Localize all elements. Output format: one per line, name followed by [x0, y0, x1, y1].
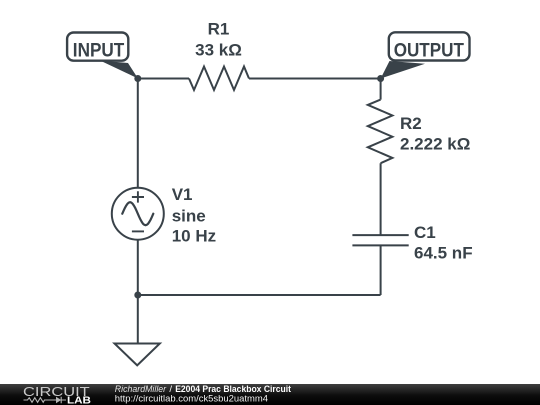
wire bottom rail [138, 294, 381, 296]
svg-text:sine: sine [172, 206, 206, 225]
node INPUT callout [67, 33, 138, 79]
wire top rail left (INPUT node to R1) [138, 78, 189, 80]
footer title line [115, 384, 292, 395]
footer logo glyph (resistor + diode) [24, 397, 67, 403]
footer bar [0, 384, 540, 405]
svg-text:V1: V1 [172, 185, 193, 204]
node INPUT junction dot [134, 75, 141, 82]
label C1 value [414, 223, 473, 263]
svg-text:10 Hz: 10 Hz [172, 227, 216, 246]
ground [115, 344, 160, 366]
label R1 value [195, 19, 242, 59]
wire top rail right (R1 to OUTPUT node) [249, 78, 381, 80]
resistor R2 [368, 100, 393, 164]
wire ground stem [137, 295, 139, 343]
wire left rail (V1 to bottom node) [137, 240, 139, 295]
voltage source V1 [112, 188, 164, 240]
footer url line [115, 393, 268, 404]
node bottom junction dot [134, 292, 141, 299]
footer logo LAB [67, 395, 91, 405]
svg-text:OUTPUT: OUTPUT [394, 40, 465, 61]
capacitor C1 [352, 235, 408, 245]
svg-text:64.5 nF: 64.5 nF [414, 244, 473, 263]
svg-text:33 kΩ: 33 kΩ [195, 40, 242, 59]
node OUTPUT junction dot [377, 75, 384, 82]
svg-text:LAB: LAB [67, 395, 91, 405]
footer logo CIRCUIT [23, 384, 90, 399]
svg-text:http://circuitlab.com/ck5sbu2u: http://circuitlab.com/ck5sbu2uatmm4 [115, 393, 268, 404]
resistor R1 [189, 67, 249, 91]
svg-text:INPUT: INPUT [73, 41, 125, 62]
label V1 value [172, 185, 216, 245]
svg-text:R2: R2 [400, 114, 422, 133]
svg-text:C1: C1 [414, 223, 436, 242]
wire right rail (OUTPUT node to R2) [380, 79, 382, 100]
node OUTPUT callout [381, 32, 470, 78]
svg-text:R1: R1 [208, 19, 230, 38]
label R2 value [400, 114, 470, 153]
wire right rail (R2 to C1) [380, 163, 382, 235]
wire right rail (C1 to bottom rail) [380, 245, 382, 295]
svg-text:2.222 kΩ: 2.222 kΩ [400, 135, 470, 154]
wire left rail (INPUT node down to V1) [137, 79, 139, 188]
